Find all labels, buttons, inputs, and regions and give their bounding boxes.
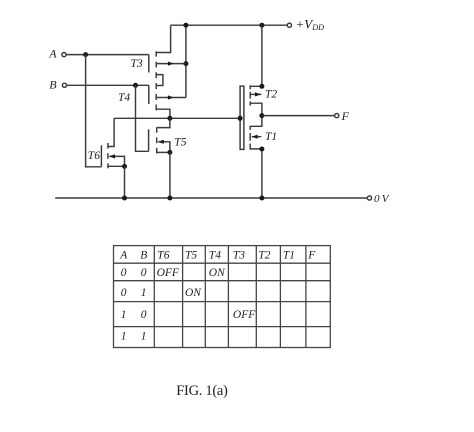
- svg-text:T6: T6: [157, 250, 169, 262]
- transistor T6 substrate lead with arrow: [109, 156, 124, 166]
- node: junction T2 drain: [259, 84, 264, 89]
- svg-text:T1: T1: [283, 250, 295, 262]
- svg-text:+VDD: +VDD: [296, 17, 325, 32]
- table: header row labels: [119, 250, 316, 343]
- svg-text:T1: T1: [265, 131, 277, 143]
- svg-text:0: 0: [141, 309, 147, 321]
- node: junction T6 source/substrate: [122, 164, 127, 169]
- node: junction on B line: [133, 83, 138, 88]
- wire: +VDD rail: [171, 24, 288, 26]
- svg-text:A: A: [119, 250, 128, 262]
- node: junction T5 riser on 0V rail: [167, 196, 172, 201]
- svg-text:T4: T4: [209, 250, 221, 262]
- wire: VDD branch to T3/T4 substrates: [185, 25, 187, 97]
- svg-text:T3: T3: [131, 58, 143, 70]
- transistor T3 gate plate: [148, 55, 150, 73]
- transistor T6 gate plate: [100, 145, 102, 167]
- node: junction T4 source / T5 drain / T6 drain: [167, 116, 172, 121]
- wire: T6 source: [108, 165, 125, 167]
- svg-text:F: F: [341, 109, 350, 123]
- svg-text:0 V: 0 V: [374, 193, 390, 205]
- table: truth table grid: [114, 246, 331, 348]
- wire: T6 source riser down to 0V rail: [124, 166, 126, 198]
- node: junction common node line at gate electrode: [238, 116, 243, 121]
- wire: T4 source down to common node: [156, 109, 170, 118]
- transistor T1 channel (dashed): [249, 126, 251, 130]
- svg-text:T2: T2: [258, 250, 270, 262]
- transistor T3 substrate lead with arrow: [156, 63, 186, 65]
- wire: output line to F terminal: [262, 115, 335, 117]
- wire: T2 source down to F node: [250, 103, 262, 115]
- transistor T4 substrate lead with arrow: [156, 97, 186, 99]
- transistor T4 channel (dashed): [155, 83, 157, 89]
- wire: T5 drain up to common node: [157, 118, 170, 127]
- svg-text:1: 1: [121, 331, 127, 343]
- transistor T6 channel (dashed): [107, 143, 109, 149]
- wire: T3 drain riser to VDD rail: [156, 25, 170, 52]
- svg-text:OFF: OFF: [157, 267, 180, 279]
- svg-text:1: 1: [141, 287, 147, 299]
- ground terminal 0V circle: [367, 196, 371, 200]
- svg-text:1: 1: [121, 309, 127, 321]
- transistor T2 substrate lead with arrow: [250, 93, 261, 95]
- output terminal F circle: [335, 114, 339, 118]
- wire: A branch down to T6 gate: [86, 55, 102, 167]
- svg-text:ON: ON: [185, 287, 202, 299]
- node: junction on A line: [83, 52, 88, 57]
- wire: input B to T4 gate: [67, 84, 149, 86]
- wire: T3 source to T4 drain: [156, 75, 163, 86]
- svg-text:T2: T2: [265, 88, 277, 100]
- wire: B branch down to T5 gate: [136, 85, 149, 151]
- svg-text:T3: T3: [233, 250, 245, 262]
- svg-text:1: 1: [141, 331, 147, 343]
- input terminal A circle: [62, 53, 66, 57]
- transistor T2 channel (dashed): [249, 85, 251, 89]
- svg-text:T6: T6: [88, 150, 100, 162]
- svg-text:OFF: OFF: [233, 309, 256, 321]
- input terminal B circle: [62, 83, 66, 87]
- wire: input A to T3 gate: [66, 54, 149, 56]
- node: junction VDD rail / substrate branch: [183, 23, 188, 28]
- wire: common node line to T1/T2 gates: [114, 117, 240, 119]
- node: junction T6 riser on 0V rail: [122, 196, 127, 201]
- svg-text:A: A: [48, 47, 57, 61]
- power terminal +VDD circle: [287, 23, 291, 27]
- node: junction T1 source: [259, 147, 264, 152]
- node: junction T1 riser on 0V rail: [259, 196, 264, 201]
- node: junction T5 source/substrate: [167, 150, 172, 155]
- svg-text:ON: ON: [209, 267, 226, 279]
- wire: T6 drain up and right to common node: [108, 118, 114, 146]
- transistor T1/T2 common gate electrode: [240, 86, 244, 149]
- transistor T5 gate plate: [148, 129, 150, 151]
- node: junction VDD rail / T2 drain riser: [259, 23, 264, 28]
- transistor T1 substrate lead with arrow: [252, 136, 261, 138]
- wire: T5 source to rail riser: [157, 151, 170, 153]
- svg-text:0: 0: [121, 267, 127, 279]
- node: junction T3 substrate on branch: [183, 61, 188, 66]
- svg-text:B: B: [140, 250, 147, 262]
- wire: T5 source riser down to 0V rail: [169, 152, 171, 198]
- svg-text:B: B: [49, 77, 57, 91]
- wire: T2 drain to VDD riser: [250, 25, 262, 86]
- transistor T5 channel (dashed): [156, 127, 158, 133]
- svg-text:T5: T5: [185, 250, 197, 262]
- svg-text:T4: T4: [118, 92, 130, 104]
- wire: T1 drain up to F node: [250, 116, 262, 127]
- wire: T1 source down to 0V rail: [250, 149, 262, 198]
- transistor T5 substrate lead with arrow: [158, 142, 170, 153]
- svg-text:0: 0: [121, 287, 127, 299]
- transistor T3 channel (dashed): [155, 51, 157, 56]
- node: output F junction: [259, 113, 264, 118]
- svg-text:FIG. 1(a): FIG. 1(a): [176, 383, 228, 399]
- transistor T4 gate plate: [148, 85, 150, 104]
- svg-text:F: F: [307, 250, 316, 262]
- wire: 0V rail: [55, 197, 367, 199]
- svg-text:0: 0: [141, 267, 147, 279]
- svg-text:T5: T5: [174, 137, 186, 149]
